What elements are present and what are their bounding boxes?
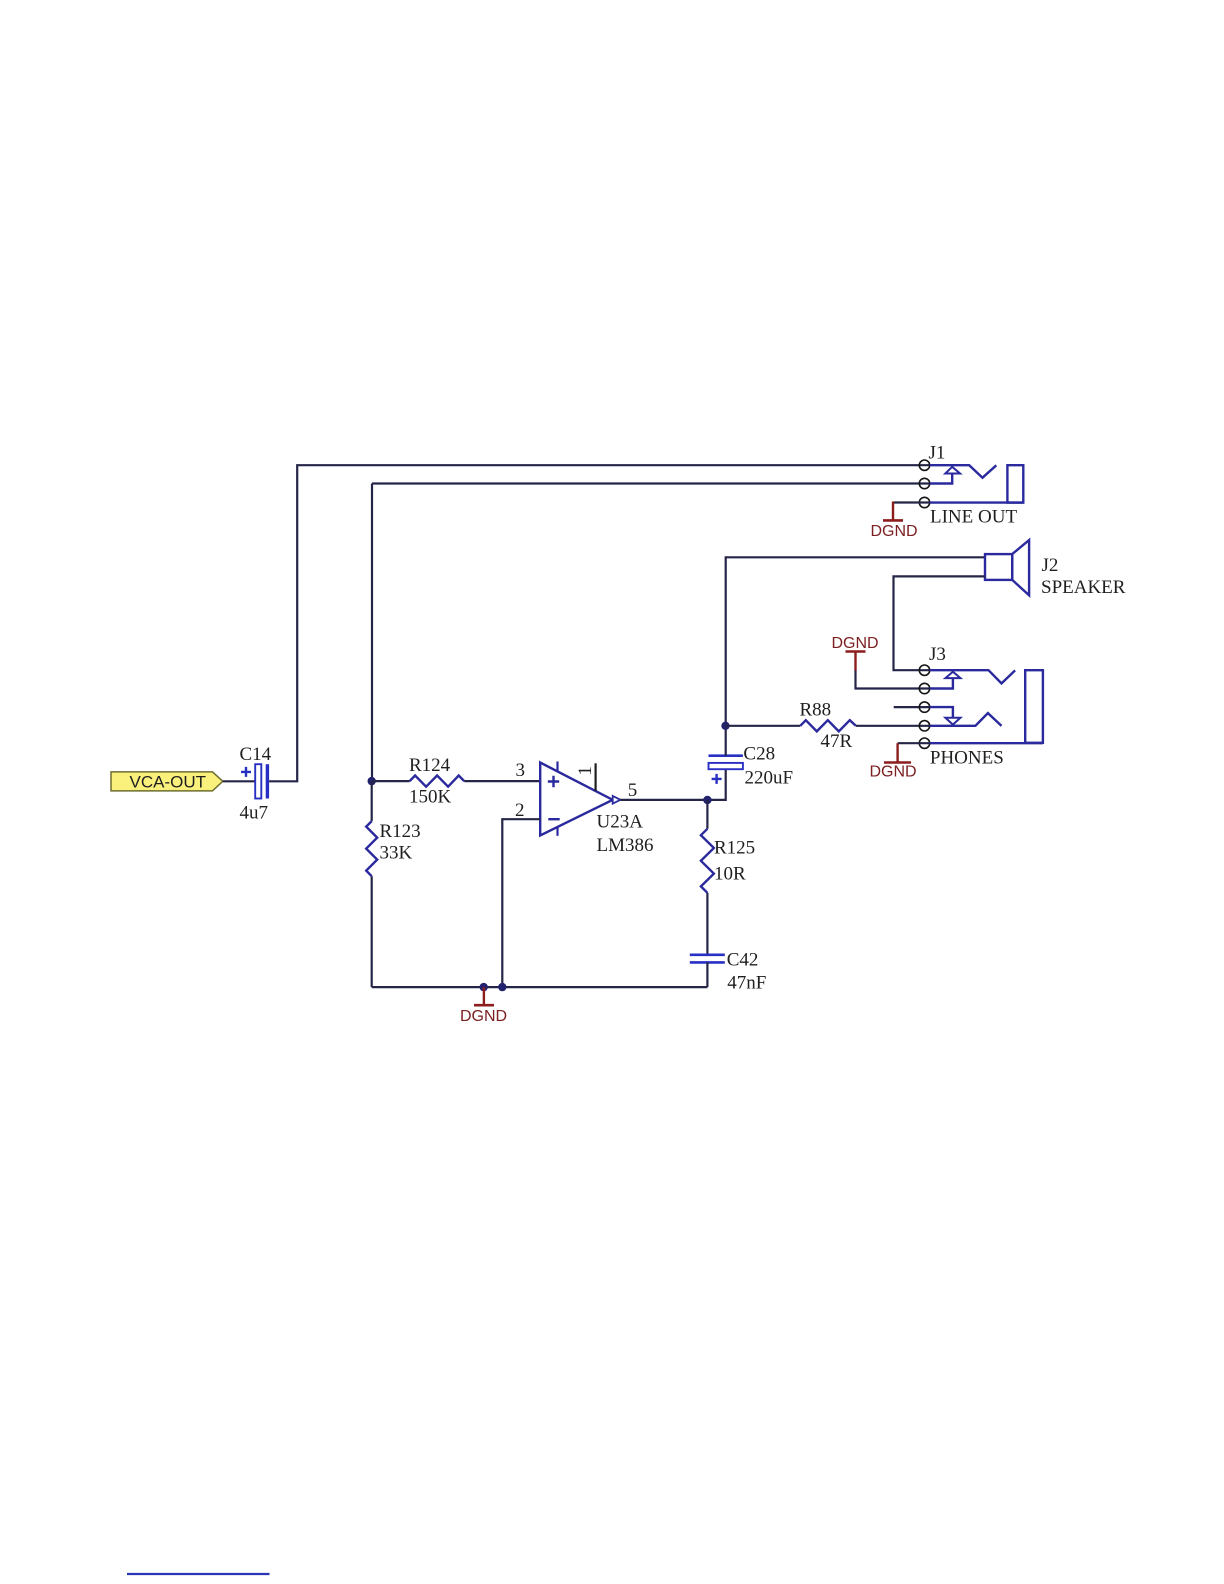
pin 2 circle: [919, 478, 929, 488]
svg-text:1: 1: [575, 766, 596, 776]
ground DGND (bottom rail): [460, 987, 507, 1025]
svg-text:LINE OUT: LINE OUT: [930, 507, 1017, 528]
svg-text:C28: C28: [743, 744, 775, 765]
svg-text:R123: R123: [380, 821, 421, 842]
wire R88 to J3 pin 4: [856, 725, 930, 727]
pin 1 circle: [919, 460, 929, 470]
wire C14 right plate up to J1 pin 1 (tip): [269, 465, 930, 781]
svg-text:R125: R125: [714, 838, 755, 859]
pin 3 circle: [919, 497, 929, 507]
node junction dot C28/R88: [721, 722, 729, 730]
node VCA-OUT (yellow net flag): [111, 772, 223, 792]
pin 1 circle: [919, 665, 929, 675]
wire R124 to op-amp pin 3: [464, 780, 540, 782]
node rail dot at DGND: [480, 983, 488, 991]
svg-text:5: 5: [628, 780, 638, 801]
svg-text:33K: 33K: [380, 843, 413, 864]
J1 sleeve: [1007, 465, 1023, 502]
wire J1 pin 2 down to R124/R123 junction: [372, 484, 930, 782]
wire junction to R124: [372, 780, 410, 782]
svg-text:SPEAKER: SPEAKER: [1041, 577, 1126, 598]
svg-text:C14: C14: [240, 744, 272, 765]
wire ground rail: [372, 986, 708, 988]
J1 tip contact: [930, 465, 997, 478]
capacitor C28: [709, 744, 794, 789]
decorative footer line: [127, 1573, 270, 1575]
op-amp U23A (LM386): [540, 762, 653, 857]
ground DGND (J3 pin 2): [832, 635, 879, 671]
svg-text:3: 3: [516, 760, 526, 781]
ground DGND (J1): [871, 502, 918, 541]
svg-text:R124: R124: [409, 755, 451, 776]
resistor R124: [409, 755, 464, 807]
svg-text:PHONES: PHONES: [930, 747, 1004, 768]
resistor R123: [366, 781, 420, 987]
resistor R88: [800, 700, 856, 753]
svg-text:DGND: DGND: [832, 635, 879, 652]
J3 ring contact: [930, 713, 1002, 726]
resistor R125: [701, 800, 755, 954]
svg-text:VCA-OUT: VCA-OUT: [130, 773, 207, 792]
connector J1 LINE OUT jack: [919, 443, 1023, 528]
svg-text:R88: R88: [800, 700, 832, 721]
ground DGND (J3 pin 5): [870, 743, 917, 780]
node junction dot R123/R124: [368, 777, 376, 785]
pin 2 circle: [919, 683, 929, 693]
wire junction to R88: [726, 725, 801, 727]
svg-text:DGND: DGND: [460, 1008, 507, 1025]
J3 ring switch arrow: [930, 707, 953, 718]
node rail dot at pin2 wire: [498, 983, 506, 991]
wire DGND to J3 pin 2: [856, 671, 930, 689]
connector J2 SPEAKER: [985, 540, 1126, 598]
wire C28 top up to speaker feed: [726, 557, 985, 755]
pin 4 circle: [919, 721, 929, 731]
svg-text:DGND: DGND: [871, 523, 918, 540]
svg-text:220uF: 220uF: [745, 768, 794, 789]
connector J3 PHONES jack: [919, 644, 1043, 768]
wire stub J3 pin 3: [894, 706, 930, 708]
svg-text:2: 2: [515, 800, 525, 821]
pin 5 circle: [919, 738, 929, 748]
svg-text:LM386: LM386: [597, 835, 654, 856]
svg-text:J3: J3: [929, 644, 946, 665]
capacitor C42: [690, 950, 767, 994]
J1 switch arrow: [945, 467, 960, 474]
J3 tip contact: [930, 670, 1015, 683]
svg-text:J1: J1: [929, 443, 946, 464]
svg-text:U23A: U23A: [597, 812, 644, 833]
svg-text:DGND: DGND: [870, 763, 917, 780]
J3 tip switch arrow: [945, 672, 960, 678]
wire J1 pin 3 to ground: [893, 501, 930, 503]
svg-text:47R: 47R: [821, 731, 853, 752]
svg-text:C42: C42: [727, 950, 759, 971]
svg-text:4u7: 4u7: [240, 803, 269, 824]
node junction dot output/R125: [703, 796, 711, 804]
pin 3 circle: [919, 702, 929, 712]
wire speaker bottom to J3 pin 1: [894, 576, 986, 670]
wire op-amp pin 2 down to ground rail: [502, 819, 540, 987]
svg-text:150K: 150K: [409, 786, 452, 807]
wire op-amp output to C28 bottom: [620, 769, 725, 800]
svg-text:47nF: 47nF: [727, 973, 766, 994]
J3 sleeve: [1025, 670, 1043, 743]
svg-text:10R: 10R: [714, 864, 746, 885]
wire J3 pin 5 to ground: [898, 742, 930, 744]
wire VCA-OUT to C14 left plate: [223, 780, 255, 782]
capacitor C14: [240, 744, 272, 824]
svg-text:J2: J2: [1042, 555, 1059, 576]
